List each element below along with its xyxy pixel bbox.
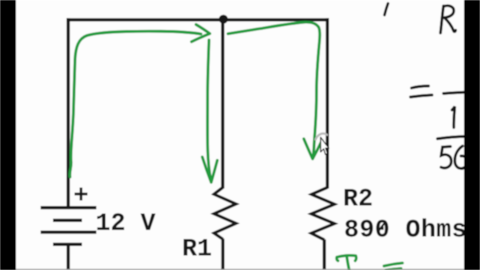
battery V1 plates — [41, 208, 97, 245]
green arrowhead down at R2 — [304, 139, 322, 159]
wire middle branch — [221, 20, 224, 189]
wire R1 bottom lead — [221, 239, 224, 270]
resistor R1 — [214, 188, 236, 240]
frame bottom edge line — [16, 269, 464, 270]
wire R2 bottom lead — [323, 239, 326, 270]
green current arrow right branch — [228, 22, 320, 156]
green handwritten I — [337, 255, 356, 270]
handwritten R — [441, 6, 456, 33]
resistor R2 label — [345, 189, 372, 206]
resistor R1 label — [184, 239, 211, 256]
handwritten fraction bar bottom — [438, 136, 469, 138]
handwritten fraction bar top — [444, 92, 473, 94]
green arrowhead down at R1 — [202, 157, 217, 182]
resistor R2 — [311, 188, 334, 240]
mouse cursor — [321, 137, 329, 154]
green handwritten equals — [384, 263, 403, 270]
wire right branch — [326, 18, 329, 188]
slash of zero glyph in 890 — [378, 222, 386, 232]
gray cursor trail arc — [316, 134, 328, 140]
wire top rail — [67, 18, 330, 21]
wire left branch — [67, 18, 70, 206]
node junction dot — [219, 15, 228, 24]
letterbox bar right — [464, 0, 480, 270]
battery V1 plus sign — [75, 188, 88, 201]
green current loop arrow left — [70, 31, 201, 177]
resistor R2 value label 890 Ohms — [345, 218, 465, 236]
handwritten 5 — [441, 147, 451, 168]
letterbox bar left — [0, 0, 16, 270]
green current arrow middle branch — [207, 40, 210, 178]
wire battery bottom lead — [67, 244, 70, 270]
handwritten 6 — [455, 146, 467, 169]
battery value label 12 V — [97, 213, 155, 230]
handwritten equals sign — [411, 86, 433, 97]
handwritten tick mark — [385, 4, 389, 16]
green arrowhead right-pointing at node — [192, 25, 210, 42]
handwritten numerator 1 — [452, 107, 455, 128]
